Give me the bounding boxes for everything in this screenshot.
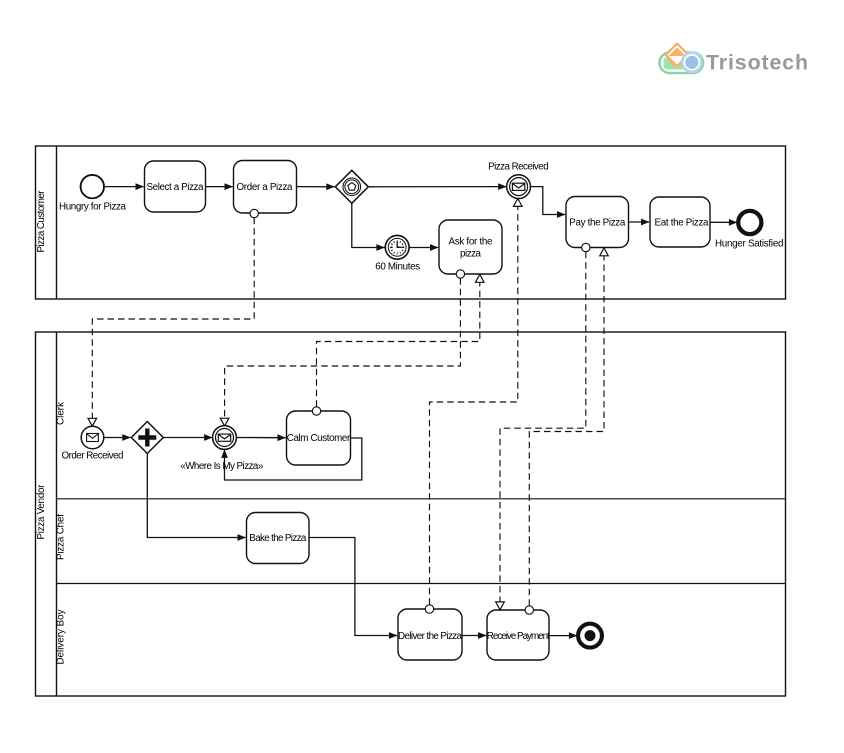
svg-text:Delivery Boy: Delivery Boy [56, 609, 67, 664]
svg-text:Deliver the Pizza: Deliver the Pizza [398, 631, 463, 642]
svg-text:60 Minutes: 60 Minutes [375, 262, 420, 273]
svg-text:Pizza Received: Pizza Received [488, 162, 549, 173]
svg-text:Receive Payment: Receive Payment [487, 631, 550, 642]
svg-text:Pay the Pizza: Pay the Pizza [569, 218, 626, 229]
svg-text:Hunger Satisfied: Hunger Satisfied [715, 239, 784, 250]
svg-text:Ask for the: Ask for the [449, 237, 494, 248]
svg-text:Select a Pizza: Select a Pizza [147, 182, 205, 193]
svg-text:Calm Customer: Calm Customer [287, 433, 351, 444]
svg-text:Pizza Customer: Pizza Customer [36, 190, 47, 253]
svg-text:Pizza Chef: Pizza Chef [56, 514, 67, 560]
svg-text:Hungry for Pizza: Hungry for Pizza [59, 202, 127, 213]
svg-text:Eat the Pizza: Eat the Pizza [655, 218, 710, 229]
svg-text:Order a Pizza: Order a Pizza [237, 182, 294, 193]
svg-text:Order Received: Order Received [62, 451, 124, 462]
svg-text:Bake the Pizza: Bake the Pizza [249, 533, 307, 544]
svg-text:pizza: pizza [460, 249, 482, 260]
svg-text:Pizza Vendor: Pizza Vendor [36, 484, 47, 540]
svg-text:«Where Is My Pizza»: «Where Is My Pizza» [180, 461, 264, 472]
svg-text:Clerk: Clerk [56, 402, 67, 425]
svg-text:Trisotech: Trisotech [706, 50, 809, 74]
